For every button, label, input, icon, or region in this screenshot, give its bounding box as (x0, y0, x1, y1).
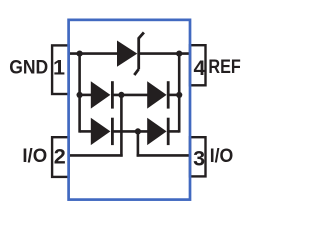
svg-text:3: 3 (193, 145, 205, 170)
svg-text:REF: REF (208, 56, 240, 78)
svg-text:1: 1 (53, 55, 65, 80)
svg-text:4: 4 (193, 55, 205, 80)
svg-text:I/O: I/O (22, 146, 47, 167)
svg-text:GND: GND (9, 57, 48, 79)
svg-text:I/O: I/O (210, 146, 234, 167)
svg-text:2: 2 (54, 143, 66, 168)
